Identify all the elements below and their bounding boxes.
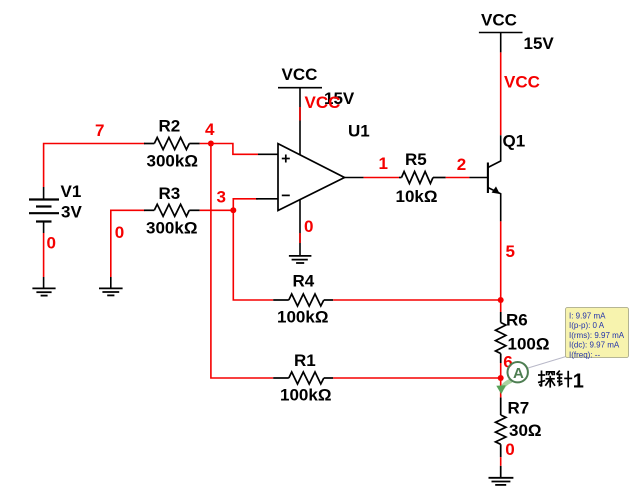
svg-text:I: 9.97 mA: I: 9.97 mA bbox=[569, 312, 606, 321]
probe name label 针 (drawn strokes) bbox=[556, 371, 572, 388]
op-amp VCC pin red net segment bbox=[299, 107, 301, 121]
current probe circle (A) bbox=[508, 362, 528, 382]
resistor R6 bbox=[496, 312, 506, 363]
wire node 4 to R1 bbox=[211, 144, 273, 379]
svg-text:100Ω: 100Ω bbox=[508, 335, 550, 354]
wire VCC to Q1 collector bbox=[500, 52, 502, 135]
svg-text:I(p-p): 0 A: I(p-p): 0 A bbox=[569, 321, 605, 330]
svg-text:R2: R2 bbox=[159, 116, 181, 135]
wire node 3 to R4 bbox=[233, 210, 273, 300]
wire R6 to node 6 (red) bbox=[500, 363, 502, 378]
resistor R3 bbox=[144, 204, 200, 216]
wire net 5 (Q1 emitter down) bbox=[500, 221, 502, 300]
battery V1 bbox=[29, 187, 59, 233]
svg-text:0: 0 bbox=[505, 440, 514, 459]
svg-text:I(rms): 9.97 mA: I(rms): 9.97 mA bbox=[569, 331, 625, 340]
transistor Q1 emitter arrow bbox=[492, 186, 500, 194]
svg-text:I(freq): --: I(freq): -- bbox=[569, 350, 600, 359]
svg-text:3: 3 bbox=[217, 188, 226, 207]
svg-text:0: 0 bbox=[47, 234, 56, 253]
op-amp ground pin red net segment bbox=[299, 233, 301, 243]
transistor Q1 bbox=[469, 135, 500, 221]
junction node 3 bbox=[230, 207, 236, 213]
svg-text:R5: R5 bbox=[405, 150, 427, 169]
svg-text:1: 1 bbox=[379, 154, 388, 173]
current probe arrowhead bbox=[496, 385, 506, 394]
svg-text:5: 5 bbox=[506, 242, 515, 261]
svg-text:VCC: VCC bbox=[305, 93, 341, 112]
wire net 3 (R3 to op-amp - input) bbox=[200, 199, 258, 211]
svg-text:VCC: VCC bbox=[504, 72, 540, 91]
junction node 6 bbox=[498, 375, 504, 381]
svg-text:10kΩ: 10kΩ bbox=[396, 187, 438, 206]
svg-text:0: 0 bbox=[115, 223, 124, 242]
svg-text:I(dc): 9.97 mA: I(dc): 9.97 mA bbox=[569, 341, 620, 350]
op-amp U1 bbox=[256, 88, 364, 256]
junction node 4 bbox=[208, 141, 214, 147]
svg-text:1: 1 bbox=[573, 370, 584, 392]
svg-text:300kΩ: 300kΩ bbox=[146, 219, 197, 238]
current probe arrow (light green body) bbox=[502, 381, 512, 389]
svg-text:R4: R4 bbox=[293, 272, 315, 291]
svg-text:Q1: Q1 bbox=[503, 132, 526, 151]
probe tooltip box bbox=[566, 308, 629, 358]
wire net 2 (R5 to Q1 base) bbox=[446, 177, 470, 179]
svg-text:R3: R3 bbox=[159, 184, 181, 203]
power VCC symbol (op-amp) bbox=[278, 87, 322, 89]
svg-text:7: 7 bbox=[95, 121, 104, 140]
svg-text:U1: U1 bbox=[348, 122, 370, 141]
ground (battery) bbox=[32, 277, 55, 296]
svg-text:R6: R6 bbox=[506, 311, 528, 330]
svg-text:R7: R7 bbox=[508, 399, 530, 418]
svg-text:VCC: VCC bbox=[282, 65, 318, 84]
probe name label 探 (drawn strokes) bbox=[538, 371, 555, 388]
svg-text:100kΩ: 100kΩ bbox=[280, 386, 331, 405]
wire node 5 to R6 (red) bbox=[500, 300, 502, 312]
wire battery - to ground (red) bbox=[43, 233, 45, 277]
wire net 0 (R7 to ground, red) bbox=[500, 457, 502, 466]
resistor R5 bbox=[399, 172, 446, 184]
svg-text:0: 0 bbox=[304, 217, 313, 236]
svg-text:R1: R1 bbox=[294, 351, 316, 370]
resistor R1 bbox=[273, 372, 333, 384]
svg-text:3V: 3V bbox=[61, 203, 82, 222]
svg-text:V1: V1 bbox=[61, 182, 82, 201]
svg-text:30Ω: 30Ω bbox=[509, 421, 542, 440]
resistor R4 bbox=[273, 294, 333, 306]
wire net 1 (op-amp output to R5) bbox=[364, 177, 399, 179]
junction node 5 / R4 row bbox=[498, 297, 504, 303]
ground (op-amp) bbox=[289, 256, 312, 263]
svg-text:A: A bbox=[513, 365, 524, 382]
svg-text:VCC: VCC bbox=[481, 10, 517, 29]
svg-text:4: 4 bbox=[205, 120, 215, 139]
ground (R7) bbox=[489, 478, 514, 485]
resistor R7 bbox=[496, 397, 506, 477]
wire net 6 row (R1 to node 6) bbox=[333, 377, 501, 379]
svg-text:300kΩ: 300kΩ bbox=[147, 151, 198, 170]
wire net 0 (ground to R3) bbox=[111, 210, 145, 277]
svg-text:2: 2 bbox=[457, 155, 466, 174]
wire R4 to node 5 bbox=[333, 299, 501, 301]
wire net 7 (battery + to R2) bbox=[44, 144, 145, 188]
resistor R2 bbox=[144, 138, 200, 150]
wire net 4 (R2 to op-amp + input) bbox=[200, 144, 258, 155]
ground (left of R3) bbox=[99, 277, 123, 295]
svg-text:100kΩ: 100kΩ bbox=[277, 308, 328, 327]
wire node 6 to R7 (red) bbox=[500, 378, 502, 397]
power VCC symbol (Q1) bbox=[479, 33, 523, 53]
svg-text:15V: 15V bbox=[524, 34, 555, 53]
probe callout line bbox=[528, 357, 566, 369]
